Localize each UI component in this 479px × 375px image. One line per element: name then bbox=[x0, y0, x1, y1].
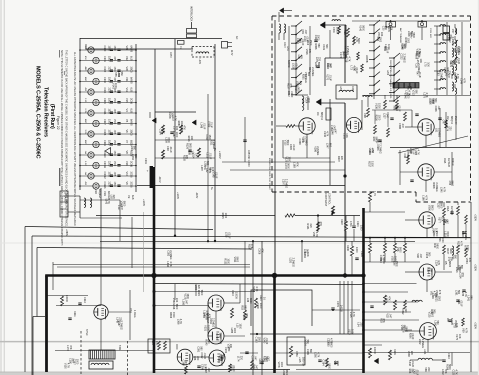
svg-text:5600: 5600 bbox=[122, 201, 125, 207]
svg-text:V9: V9 bbox=[125, 182, 129, 186]
svg-text:10000: 10000 bbox=[373, 347, 376, 354]
svg-text:C338: C338 bbox=[298, 139, 301, 146]
svg-text:3CB6: 3CB6 bbox=[130, 182, 133, 189]
svg-text:560: 560 bbox=[134, 154, 137, 159]
svg-text:2.2MEG: 2.2MEG bbox=[435, 182, 438, 191]
svg-text:L260: L260 bbox=[314, 352, 317, 358]
svg-text:L32: L32 bbox=[297, 55, 300, 60]
svg-text:+140V: +140V bbox=[176, 192, 179, 199]
svg-text:L394: L394 bbox=[454, 57, 457, 63]
svg-text:1500: 1500 bbox=[113, 119, 115, 125]
svg-text:R317: R317 bbox=[367, 161, 370, 168]
svg-text:R218: R218 bbox=[345, 56, 348, 63]
svg-text:INTERLOCK: INTERLOCK bbox=[190, 6, 194, 22]
svg-text:L247: L247 bbox=[326, 143, 329, 149]
svg-text:L314: L314 bbox=[409, 148, 412, 154]
svg-text:V136: V136 bbox=[375, 103, 378, 109]
svg-text:L73: L73 bbox=[350, 66, 353, 71]
svg-text:2.2MEG: 2.2MEG bbox=[291, 258, 294, 267]
svg-text:6BZ6: 6BZ6 bbox=[448, 261, 451, 268]
svg-text:.005: .005 bbox=[113, 109, 115, 114]
svg-text:.01UF: .01UF bbox=[457, 57, 460, 64]
svg-text:1000: 1000 bbox=[355, 247, 358, 253]
svg-text:1500: 1500 bbox=[113, 161, 115, 167]
svg-text:V238: V238 bbox=[407, 351, 410, 357]
svg-text:C300: C300 bbox=[103, 46, 106, 52]
svg-text:C226: C226 bbox=[326, 338, 329, 345]
svg-text:C382: C382 bbox=[166, 250, 169, 257]
svg-text:C204: C204 bbox=[304, 97, 307, 104]
svg-text:R182: R182 bbox=[242, 314, 245, 321]
svg-text:500V B+: 500V B+ bbox=[302, 357, 305, 367]
svg-text:V18: V18 bbox=[94, 189, 98, 194]
svg-text:L285: L285 bbox=[230, 328, 233, 334]
svg-text:C47: C47 bbox=[442, 120, 445, 125]
svg-text:5600: 5600 bbox=[412, 33, 415, 39]
svg-text:2.2MEG: 2.2MEG bbox=[284, 179, 287, 188]
svg-text:-110V: -110V bbox=[158, 176, 161, 183]
svg-text:R141: R141 bbox=[306, 224, 309, 231]
svg-text:L92: L92 bbox=[109, 195, 112, 200]
svg-text:4.7K: 4.7K bbox=[462, 78, 465, 83]
svg-text:1500: 1500 bbox=[108, 77, 111, 83]
svg-text:10K: 10K bbox=[426, 62, 429, 67]
svg-text:C319: C319 bbox=[103, 140, 106, 146]
svg-text:560: 560 bbox=[309, 349, 312, 354]
svg-text:L393: L393 bbox=[455, 267, 458, 273]
svg-text:V130: V130 bbox=[64, 363, 67, 369]
svg-text:V55: V55 bbox=[114, 72, 117, 77]
svg-text:.01UF: .01UF bbox=[411, 333, 414, 340]
svg-text:R53: R53 bbox=[241, 305, 244, 310]
svg-text:+250V: +250V bbox=[474, 264, 477, 271]
svg-text:L341: L341 bbox=[423, 349, 426, 355]
svg-text:1000: 1000 bbox=[280, 362, 283, 368]
svg-text:1500: 1500 bbox=[238, 323, 241, 329]
svg-text:4.7K: 4.7K bbox=[317, 352, 320, 357]
svg-text:C315: C315 bbox=[103, 98, 106, 104]
svg-text:V38: V38 bbox=[312, 232, 315, 237]
svg-text:C284 MF 10000: C284 MF 10000 bbox=[247, 150, 249, 167]
svg-text:560: 560 bbox=[433, 309, 436, 314]
svg-text:.01UF: .01UF bbox=[415, 369, 418, 375]
svg-text:10K: 10K bbox=[454, 29, 457, 34]
svg-text:L134: L134 bbox=[330, 125, 333, 131]
svg-text:1500: 1500 bbox=[113, 182, 115, 188]
svg-text:.01UF: .01UF bbox=[328, 74, 331, 81]
svg-text:V7A: V7A bbox=[129, 308, 133, 313]
svg-text:560: 560 bbox=[206, 161, 209, 166]
svg-text:+145: +145 bbox=[298, 357, 301, 363]
svg-text:1500: 1500 bbox=[393, 256, 396, 262]
svg-text:560: 560 bbox=[120, 72, 123, 77]
svg-text:C301: C301 bbox=[103, 56, 106, 62]
svg-text:R137: R137 bbox=[446, 248, 449, 255]
svg-text:10K: 10K bbox=[429, 268, 432, 273]
svg-text:.6A: .6A bbox=[84, 172, 87, 176]
svg-text:220: 220 bbox=[309, 224, 312, 229]
svg-text:2.2MEG: 2.2MEG bbox=[379, 144, 382, 153]
svg-text:47K: 47K bbox=[387, 296, 390, 301]
svg-text:.047: .047 bbox=[304, 29, 307, 34]
svg-text:C78: C78 bbox=[452, 323, 455, 328]
svg-text:6U8: 6U8 bbox=[130, 109, 133, 114]
svg-text:R169: R169 bbox=[414, 53, 417, 60]
svg-text:R297: R297 bbox=[337, 156, 340, 163]
svg-text:C201 N20: C201 N20 bbox=[429, 28, 431, 39]
svg-text:220: 220 bbox=[449, 126, 452, 131]
svg-text:R366: R366 bbox=[314, 43, 317, 50]
svg-text:L239: L239 bbox=[432, 231, 435, 237]
svg-text:4.7K: 4.7K bbox=[373, 191, 376, 196]
svg-text:1000: 1000 bbox=[441, 237, 444, 243]
svg-text:560: 560 bbox=[469, 296, 472, 301]
svg-text:.01UF: .01UF bbox=[265, 337, 268, 344]
svg-text:V306: V306 bbox=[453, 74, 456, 80]
svg-text:L302: L302 bbox=[441, 369, 444, 375]
svg-text:Figure 22: Figure 22 bbox=[56, 116, 60, 130]
svg-text:V148: V148 bbox=[212, 172, 215, 178]
svg-text:V1A: V1A bbox=[446, 206, 450, 211]
svg-text:560: 560 bbox=[324, 360, 327, 365]
svg-text:5600: 5600 bbox=[297, 87, 300, 93]
svg-text:C383: C383 bbox=[376, 144, 379, 151]
svg-text:C317: C317 bbox=[103, 119, 106, 125]
svg-text:+280V: +280V bbox=[65, 229, 68, 236]
svg-text:V4: V4 bbox=[316, 112, 320, 116]
svg-text:R131: R131 bbox=[224, 258, 227, 265]
svg-text:.01UF: .01UF bbox=[290, 91, 293, 98]
svg-text:L259: L259 bbox=[164, 137, 167, 143]
svg-text:V281: V281 bbox=[391, 256, 394, 262]
svg-text:6AW8: 6AW8 bbox=[130, 46, 133, 53]
svg-text:220: 220 bbox=[410, 351, 413, 356]
svg-text:1500: 1500 bbox=[377, 103, 380, 109]
svg-text:.01UF: .01UF bbox=[301, 39, 304, 46]
svg-text:2200: 2200 bbox=[108, 67, 111, 73]
svg-text:2ND RF: 2ND RF bbox=[454, 116, 457, 125]
svg-text:C20: C20 bbox=[381, 26, 384, 31]
svg-text:L166: L166 bbox=[422, 195, 425, 201]
svg-text:5600: 5600 bbox=[399, 247, 402, 253]
svg-text:.047: .047 bbox=[161, 129, 164, 134]
svg-text:R364: R364 bbox=[427, 268, 430, 275]
svg-text:C3011: C3011 bbox=[103, 161, 106, 169]
svg-text:.005: .005 bbox=[113, 172, 115, 177]
svg-text:5600: 5600 bbox=[458, 267, 461, 273]
svg-text:220: 220 bbox=[112, 195, 115, 200]
svg-text:V23: V23 bbox=[125, 46, 129, 51]
svg-text:C184: C184 bbox=[159, 129, 162, 136]
svg-text:560: 560 bbox=[329, 63, 332, 68]
svg-text:220: 220 bbox=[220, 357, 223, 362]
svg-text:4.7K: 4.7K bbox=[464, 328, 467, 333]
svg-text:560: 560 bbox=[436, 321, 439, 326]
svg-text:V340: V340 bbox=[262, 337, 265, 343]
svg-text:L276: L276 bbox=[198, 59, 201, 65]
svg-text:V16: V16 bbox=[125, 161, 129, 166]
svg-text:V324: V324 bbox=[303, 340, 306, 346]
svg-text:.047: .047 bbox=[437, 106, 440, 111]
svg-text:R1S: R1S bbox=[343, 30, 346, 35]
svg-text:.047: .047 bbox=[401, 123, 404, 128]
svg-text:C57: C57 bbox=[451, 29, 454, 34]
svg-text:C313: C313 bbox=[83, 297, 86, 303]
svg-text:560: 560 bbox=[133, 146, 136, 151]
svg-text:560: 560 bbox=[199, 346, 202, 351]
svg-text:R26: R26 bbox=[408, 369, 411, 374]
svg-text:V110: V110 bbox=[283, 140, 286, 146]
svg-text:R221: R221 bbox=[435, 296, 438, 303]
svg-text:L75: L75 bbox=[424, 62, 427, 67]
svg-text:V8: V8 bbox=[125, 151, 129, 155]
svg-text:.005: .005 bbox=[113, 56, 115, 61]
svg-text:2200: 2200 bbox=[108, 88, 111, 94]
svg-text:C3113: C3113 bbox=[103, 182, 106, 190]
svg-text:L287: L287 bbox=[200, 165, 203, 171]
svg-text:5600: 5600 bbox=[448, 364, 451, 370]
svg-text:C316: C316 bbox=[103, 109, 106, 115]
svg-text:L237: L237 bbox=[383, 113, 386, 119]
svg-text:L36: L36 bbox=[246, 298, 249, 303]
svg-text:560: 560 bbox=[245, 314, 248, 319]
svg-text:4.7K: 4.7K bbox=[459, 241, 462, 246]
svg-text:CONTRAST: CONTRAST bbox=[324, 193, 327, 207]
svg-text:R380: R380 bbox=[446, 34, 449, 41]
svg-text:C38: C38 bbox=[403, 153, 406, 158]
svg-text:V254: V254 bbox=[465, 258, 468, 264]
svg-text:1500: 1500 bbox=[309, 40, 312, 46]
svg-text:C340: C340 bbox=[231, 290, 234, 296]
svg-text:3BC5: 3BC5 bbox=[130, 130, 133, 137]
svg-text:2.2MEG: 2.2MEG bbox=[212, 318, 215, 327]
svg-text:560: 560 bbox=[328, 143, 331, 148]
svg-text:1500: 1500 bbox=[167, 137, 170, 143]
svg-text:L112: L112 bbox=[306, 40, 309, 46]
svg-text:10K: 10K bbox=[455, 323, 458, 328]
svg-text:R398: R398 bbox=[461, 231, 464, 238]
svg-text:2.2MEG: 2.2MEG bbox=[402, 54, 405, 63]
svg-text:V234: V234 bbox=[209, 318, 212, 324]
svg-text:1000: 1000 bbox=[307, 97, 310, 103]
svg-text:V5: V5 bbox=[444, 261, 448, 265]
svg-text:5600: 5600 bbox=[285, 370, 288, 375]
svg-text:6BQ7A: 6BQ7A bbox=[450, 116, 453, 124]
svg-text:L153: L153 bbox=[385, 296, 388, 302]
svg-text:R76: R76 bbox=[463, 245, 466, 250]
svg-text:6U8: 6U8 bbox=[130, 56, 133, 61]
svg-text:.01UF: .01UF bbox=[214, 172, 217, 179]
svg-text:5600: 5600 bbox=[444, 120, 447, 126]
svg-text:4.7K: 4.7K bbox=[464, 292, 467, 297]
svg-text:V59: V59 bbox=[461, 328, 464, 333]
svg-text:2.2MEG: 2.2MEG bbox=[169, 250, 172, 259]
svg-text:V22: V22 bbox=[125, 56, 129, 61]
svg-text:47K: 47K bbox=[205, 310, 208, 315]
svg-text:V66: V66 bbox=[424, 367, 427, 372]
svg-text:V21: V21 bbox=[125, 77, 129, 82]
svg-text:V230: V230 bbox=[454, 46, 457, 52]
svg-text:.01UF: .01UF bbox=[208, 152, 211, 159]
svg-text:4.7K: 4.7K bbox=[329, 338, 332, 343]
svg-text:1000: 1000 bbox=[360, 225, 363, 231]
svg-text:C304: C304 bbox=[103, 88, 106, 94]
svg-text:1500: 1500 bbox=[108, 56, 111, 62]
svg-text:6AW8: 6AW8 bbox=[130, 77, 133, 84]
svg-text:V140: V140 bbox=[358, 25, 361, 31]
svg-text:5600: 5600 bbox=[317, 62, 320, 68]
svg-text:1K: 1K bbox=[263, 297, 266, 300]
svg-text:C48: C48 bbox=[166, 146, 169, 151]
svg-text:V53: V53 bbox=[333, 361, 336, 366]
svg-text:6BQ7A: 6BQ7A bbox=[320, 112, 323, 120]
svg-text:L168: L168 bbox=[293, 162, 296, 168]
svg-text:V316: V316 bbox=[305, 49, 308, 55]
svg-text:220: 220 bbox=[118, 317, 121, 322]
svg-text:+250V: +250V bbox=[474, 214, 477, 221]
svg-text:Television Receivers: Television Receivers bbox=[43, 87, 49, 137]
svg-text:L322: L322 bbox=[418, 339, 421, 345]
svg-text:L275: L275 bbox=[422, 92, 425, 98]
svg-text:1000: 1000 bbox=[175, 132, 178, 138]
svg-text:1000: 1000 bbox=[226, 258, 229, 264]
svg-text:1500: 1500 bbox=[287, 156, 290, 162]
svg-text:560: 560 bbox=[434, 98, 437, 103]
svg-text:47K: 47K bbox=[449, 34, 452, 39]
svg-text:5600: 5600 bbox=[375, 137, 378, 143]
svg-text:V20: V20 bbox=[125, 67, 129, 72]
svg-text:R255: R255 bbox=[182, 155, 185, 162]
svg-text:L81: L81 bbox=[434, 128, 437, 133]
svg-text:10K: 10K bbox=[306, 252, 309, 257]
svg-text:AC: AC bbox=[235, 36, 238, 40]
svg-text:V47: V47 bbox=[447, 73, 450, 78]
svg-text:V143: V143 bbox=[443, 67, 446, 73]
svg-text:220: 220 bbox=[340, 156, 343, 161]
svg-text:10K: 10K bbox=[345, 133, 348, 138]
svg-text:.047: .047 bbox=[446, 219, 449, 224]
svg-text:4.7K: 4.7K bbox=[425, 92, 428, 97]
svg-text:R126: R126 bbox=[186, 143, 189, 150]
svg-text:5600: 5600 bbox=[451, 181, 454, 187]
svg-text:R33: R33 bbox=[379, 318, 382, 323]
svg-text:2.2MEG: 2.2MEG bbox=[464, 231, 467, 240]
svg-text:1000: 1000 bbox=[108, 172, 111, 178]
svg-text:V359: V359 bbox=[431, 98, 434, 104]
svg-text:5600: 5600 bbox=[406, 153, 409, 159]
svg-text:220: 220 bbox=[196, 356, 199, 361]
svg-text:L296: L296 bbox=[400, 43, 403, 49]
svg-text:V48: V48 bbox=[416, 253, 419, 258]
svg-text:220: 220 bbox=[404, 308, 407, 313]
svg-text:V35: V35 bbox=[461, 292, 464, 297]
svg-text:+140V: +140V bbox=[218, 151, 222, 159]
svg-text:L143: L143 bbox=[104, 199, 107, 205]
svg-text:1500: 1500 bbox=[108, 46, 111, 52]
svg-text:C222: C222 bbox=[400, 54, 403, 61]
svg-text:1000: 1000 bbox=[466, 245, 469, 251]
svg-text:L301: L301 bbox=[130, 146, 133, 152]
svg-text:6.3V: 6.3V bbox=[84, 161, 86, 166]
svg-text:C240: C240 bbox=[323, 131, 326, 138]
svg-text:.047: .047 bbox=[207, 367, 210, 372]
svg-text:5600: 5600 bbox=[449, 248, 452, 254]
svg-text:V175: V175 bbox=[455, 334, 458, 340]
svg-text:1500: 1500 bbox=[437, 296, 440, 302]
svg-text:10K: 10K bbox=[190, 136, 193, 141]
svg-text:V3A: V3A bbox=[443, 158, 447, 163]
svg-text:1000: 1000 bbox=[377, 115, 380, 121]
svg-text:C224: C224 bbox=[434, 260, 437, 267]
svg-text:2.2MEG: 2.2MEG bbox=[439, 71, 442, 80]
svg-text:.047: .047 bbox=[253, 356, 256, 361]
svg-text:1500: 1500 bbox=[113, 151, 115, 157]
svg-text:C119: C119 bbox=[322, 44, 325, 50]
svg-text:SPEAKER: SPEAKER bbox=[64, 192, 67, 204]
svg-text:47K: 47K bbox=[218, 334, 221, 339]
svg-text:10K: 10K bbox=[229, 344, 232, 349]
svg-text:R311: R311 bbox=[73, 311, 76, 317]
svg-text:R368: R368 bbox=[432, 182, 435, 189]
svg-text:V4: V4 bbox=[125, 109, 129, 113]
svg-text:C311: C311 bbox=[205, 134, 208, 140]
svg-text:.01UF: .01UF bbox=[292, 144, 295, 151]
svg-text:.01UF: .01UF bbox=[203, 352, 206, 359]
svg-text:220: 220 bbox=[427, 367, 430, 372]
svg-text:V377: V377 bbox=[438, 217, 441, 223]
svg-text:V69: V69 bbox=[379, 258, 382, 263]
svg-text:3CB6: 3CB6 bbox=[130, 172, 133, 179]
svg-text:4BC: 4BC bbox=[84, 77, 86, 82]
svg-text:2.2MEG: 2.2MEG bbox=[316, 146, 319, 155]
svg-text:L86: L86 bbox=[193, 356, 196, 361]
svg-text:47K: 47K bbox=[260, 248, 263, 253]
svg-text:47K: 47K bbox=[155, 341, 158, 346]
svg-text:47K: 47K bbox=[319, 221, 322, 226]
svg-text:47K: 47K bbox=[69, 345, 72, 350]
svg-text:L54: L54 bbox=[356, 322, 359, 327]
svg-text:C189: C189 bbox=[306, 349, 309, 356]
svg-text:1000: 1000 bbox=[108, 119, 111, 125]
svg-text:R36: R36 bbox=[430, 309, 433, 314]
svg-text:(First Run): (First Run) bbox=[49, 104, 55, 129]
svg-text:4.7K: 4.7K bbox=[437, 260, 440, 265]
svg-text:.6A: .6A bbox=[84, 151, 87, 155]
svg-text:1000: 1000 bbox=[259, 303, 262, 309]
svg-text:MIXER: MIXER bbox=[451, 158, 454, 166]
svg-text:4BC: 4BC bbox=[84, 140, 86, 145]
svg-text:C203: C203 bbox=[351, 86, 353, 92]
svg-text:.01UF: .01UF bbox=[386, 46, 389, 53]
svg-text:L348: L348 bbox=[116, 317, 119, 323]
svg-text:1500: 1500 bbox=[382, 258, 385, 264]
svg-text:.047: .047 bbox=[255, 364, 258, 369]
svg-text:R351: R351 bbox=[301, 74, 304, 81]
svg-text:V125: V125 bbox=[183, 293, 186, 299]
svg-text:C346: C346 bbox=[434, 106, 437, 113]
svg-text:4.7K: 4.7K bbox=[348, 56, 351, 61]
svg-text:C391: C391 bbox=[197, 346, 200, 353]
svg-text:.01UF: .01UF bbox=[232, 365, 235, 372]
svg-text:36000 OPEN ON CHANNELS 2-6 INC: 36000 OPEN ON CHANNELS 2-6 INCL bbox=[389, 60, 392, 99]
svg-text:3200B: 3200B bbox=[365, 55, 369, 63]
svg-text:R277: R277 bbox=[409, 33, 412, 40]
svg-text:C392: C392 bbox=[401, 308, 404, 315]
svg-text:V373: V373 bbox=[302, 136, 305, 142]
svg-text:C3012: C3012 bbox=[103, 172, 106, 180]
svg-text:L211: L211 bbox=[286, 46, 288, 52]
svg-text:560: 560 bbox=[325, 44, 328, 49]
